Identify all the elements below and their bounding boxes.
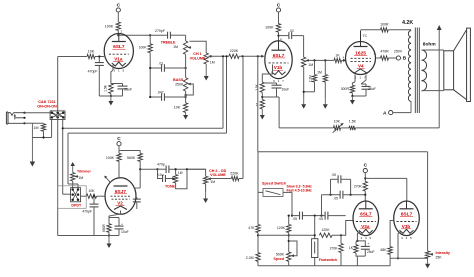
svg-text:1K: 1K xyxy=(349,246,354,250)
svg-text:560K: 560K xyxy=(127,156,136,160)
wire .02 down to pot xyxy=(303,36,305,58)
wire pot to 1K xyxy=(309,59,334,61)
ground 1M grid xyxy=(323,98,328,109)
wire V2 plate to 470p xyxy=(140,168,158,170)
resistor 68K xyxy=(388,247,392,255)
svg-text:.05: .05 xyxy=(292,217,297,221)
switch DPDT xyxy=(71,188,81,202)
svg-text:V2: V2 xyxy=(117,201,123,206)
wire tone bottom loop xyxy=(176,168,188,189)
wire tremolo top horizontal xyxy=(258,151,428,153)
label CH 1 xyxy=(193,52,201,56)
wire vertical x=226.5 xyxy=(226,56,228,133)
terminal C tremolo xyxy=(363,162,367,172)
svg-text:.05: .05 xyxy=(318,217,323,221)
svg-text:1M: 1M xyxy=(210,180,215,184)
wire speed wiper loop xyxy=(289,241,297,256)
wire 68K bottom xyxy=(389,254,391,265)
label 1K xyxy=(335,54,340,58)
pot 1M driver xyxy=(301,57,309,67)
label 680R xyxy=(102,223,106,231)
wire A to primary bottom xyxy=(393,112,411,114)
svg-text:10K: 10K xyxy=(88,49,95,53)
label 1.5K feedback xyxy=(349,120,357,124)
ground bus tremolo xyxy=(258,265,390,267)
trimmer 15K feedback xyxy=(333,123,344,133)
label 4.2K xyxy=(402,20,413,26)
svg-text:Intensity: Intensity xyxy=(436,251,450,255)
V2 grid2 arrow xyxy=(104,176,110,182)
wire cathode node V1b xyxy=(261,92,263,99)
wire 2.2M to bus xyxy=(257,261,259,265)
label 1.5K V1b xyxy=(255,83,259,90)
svg-text:C: C xyxy=(117,3,121,9)
label 25K xyxy=(436,256,443,260)
svg-text:1M: 1M xyxy=(173,45,178,49)
capacitor 470pF V1a grid xyxy=(95,55,104,96)
capacitor .02 coupling xyxy=(279,32,304,39)
label DPDT xyxy=(71,204,82,208)
capacitor 270pF xyxy=(150,32,185,39)
wire volume wiper to 220K xyxy=(212,55,229,57)
tube V3b 6SL7 xyxy=(394,201,420,240)
label 100K V1b xyxy=(265,26,274,30)
tube V1a 6SL7 xyxy=(104,30,133,73)
svg-text:10uF: 10uF xyxy=(282,88,290,92)
label 270pF xyxy=(155,29,165,33)
svg-text:C: C xyxy=(277,3,281,9)
svg-text:Trimmer: Trimmer xyxy=(77,169,91,173)
svg-text:220K: 220K xyxy=(230,172,239,176)
wire secondary bottom to speaker xyxy=(422,90,444,92)
resistor 100K slope xyxy=(148,35,152,53)
wire intensity riser xyxy=(427,152,429,251)
transformer T1 primary xyxy=(408,30,411,113)
wire 47K bottom xyxy=(257,233,259,253)
svg-text:300R: 300R xyxy=(341,87,350,91)
ground V2 cathode xyxy=(107,236,112,249)
wire 560K to plate node xyxy=(139,161,141,188)
svg-text:.02: .02 xyxy=(289,29,294,33)
resistor 120K osc xyxy=(287,225,291,233)
wire pot bottom xyxy=(303,67,315,98)
tube V1b 6SL7 xyxy=(265,37,292,83)
svg-text:8ohm: 8ohm xyxy=(423,42,436,48)
label 470pF V2 xyxy=(82,210,92,214)
wire V2 grid entry xyxy=(97,195,106,197)
resistor 100K plate V1a xyxy=(116,22,120,31)
svg-text:100K: 100K xyxy=(265,26,274,30)
ground pot/2.2M xyxy=(301,98,306,109)
label BASS xyxy=(173,78,184,82)
wire 1M bottom to ground bus xyxy=(32,136,51,138)
pot BASS 250K xyxy=(183,78,191,92)
svg-text:1M: 1M xyxy=(178,171,183,175)
svg-text:C: C xyxy=(117,136,121,142)
capacitor 470p ch2 xyxy=(158,165,188,173)
svg-text:680R: 680R xyxy=(102,223,106,231)
wire 500K to bus xyxy=(288,261,290,265)
tube V2 6SJ7 xyxy=(105,178,140,214)
label 10K tone xyxy=(174,106,181,110)
wire 100R to primary xyxy=(388,29,411,31)
wire treble top xyxy=(185,35,187,41)
switch Speed SPST xyxy=(263,189,283,197)
label 470pF xyxy=(88,70,98,74)
resistor 100K plate V1b xyxy=(276,24,280,33)
label Slow xyxy=(287,184,313,188)
svg-text:100R: 100R xyxy=(380,22,389,26)
terminal C supply V1b xyxy=(276,3,280,13)
svg-text:25uF: 25uF xyxy=(124,87,132,91)
svg-text:V3b: V3b xyxy=(402,224,411,229)
wire V2 cathode xyxy=(109,211,121,224)
label 10uF V1b xyxy=(282,88,290,92)
svg-text:470pF: 470pF xyxy=(82,210,92,214)
svg-text:ON-ON-ON: ON-ON-ON xyxy=(37,105,57,109)
svg-text:100K: 100K xyxy=(105,25,114,29)
svg-text:250K: 250K xyxy=(175,82,184,86)
label .01 xyxy=(158,61,163,65)
wire corner2 down to DPDT xyxy=(68,133,78,188)
label 560K xyxy=(127,156,136,160)
svg-text:DPDT: DPDT xyxy=(71,204,82,208)
label 1M input xyxy=(34,126,39,130)
label 10u xyxy=(158,173,164,177)
label .047 xyxy=(157,90,164,94)
wire speed sw left down xyxy=(257,192,259,224)
svg-text:C: C xyxy=(364,162,368,168)
wire V3b cathode xyxy=(397,232,401,260)
resistor 2.2M xyxy=(312,60,316,91)
ground intensity xyxy=(425,258,430,268)
resistor 270K plate V3a xyxy=(363,181,367,191)
resistor 1.5K cathode V1b xyxy=(260,82,264,92)
svg-text:120K: 120K xyxy=(322,228,331,232)
terminal B xyxy=(396,56,407,62)
label 1.5K xyxy=(103,84,107,92)
svg-text:100K: 100K xyxy=(106,156,115,160)
wire 100K to V2 top xyxy=(118,161,120,178)
label 100K V2 xyxy=(106,156,115,160)
wire V1b cathode xyxy=(262,65,272,83)
wire trimmer to DPDT xyxy=(72,181,74,188)
wire osc to V3a grid xyxy=(332,221,354,237)
wire S1 left-bottom leg xyxy=(51,120,53,138)
label 1M grid xyxy=(317,71,322,75)
wire slope bottom vertical xyxy=(149,53,151,97)
resistor 1M grid 1625 xyxy=(323,60,327,98)
svg-text:V1b: V1b xyxy=(274,65,283,70)
resistor 220K ch2 xyxy=(231,176,239,180)
pot TREBLE 1M xyxy=(183,41,191,55)
label 1M trimmer xyxy=(79,176,84,180)
resistor 120K h xyxy=(319,233,332,237)
svg-text:A: A xyxy=(383,110,387,116)
svg-text:VOLUME: VOLUME xyxy=(210,173,226,177)
label 270K plate xyxy=(354,184,363,188)
capacitor 25uF cathode V1a xyxy=(111,84,128,97)
label 47 xyxy=(256,103,260,107)
svg-text:B: B xyxy=(403,56,407,62)
wire 470R to B xyxy=(389,57,397,59)
label 2.2M xyxy=(309,75,313,82)
label 1M driver xyxy=(308,63,313,67)
wire 1K to 1625 grid xyxy=(342,59,347,62)
wire long horizontal y=128.3 to CH1 volume xyxy=(62,127,223,129)
capacitor 10uF V2 xyxy=(109,218,124,236)
wire treble-bass vertical xyxy=(185,54,187,77)
label 120K h xyxy=(322,228,331,232)
label Footswitch xyxy=(319,258,337,262)
label 25uF 1625 xyxy=(368,87,376,91)
svg-text:+: + xyxy=(121,222,123,226)
wire riser x=243 to V1b grid xyxy=(242,56,244,178)
speaker coil xyxy=(444,51,454,90)
svg-text:+: + xyxy=(368,242,370,246)
svg-text:220K: 220K xyxy=(230,49,239,53)
label 120K osc xyxy=(277,226,286,230)
svg-text:4.2K: 4.2K xyxy=(402,20,413,26)
pot CH1 VOLUME 1M xyxy=(204,53,212,64)
wire speaker ground arrow to feedback xyxy=(437,25,442,128)
wire tremolo feed drop xyxy=(257,56,259,152)
label 470R xyxy=(380,49,389,53)
svg-text:1M: 1M xyxy=(34,126,39,130)
label TONE xyxy=(165,185,176,189)
terminal C supply V1a xyxy=(116,3,120,13)
label 1M treble xyxy=(173,45,178,49)
svg-text:.047: .047 xyxy=(157,90,164,94)
capacitor .05 D xyxy=(331,175,351,183)
wire 1625 screen xyxy=(376,57,380,59)
label 25uF xyxy=(124,87,132,91)
svg-text:100K: 100K xyxy=(139,45,148,49)
ground CH1 volume xyxy=(204,64,209,81)
label 220K ch1 xyxy=(230,49,239,53)
svg-text:V3a: V3a xyxy=(361,224,370,229)
wire plate node to tone stack xyxy=(118,34,150,36)
wire 1625 plate up xyxy=(361,30,381,31)
capacitor 25uF 1625 xyxy=(352,84,370,96)
wire feedback mid xyxy=(341,127,349,129)
svg-text:1M: 1M xyxy=(317,71,322,75)
svg-text:470pF: 470pF xyxy=(88,70,98,74)
svg-text:470p: 470p xyxy=(157,162,165,166)
svg-text:250V: 250V xyxy=(394,49,403,53)
label TREBLE xyxy=(161,40,176,44)
switch DPDT box xyxy=(58,186,87,209)
resistor 1.5K feedback xyxy=(349,126,355,130)
resistor 470R screen xyxy=(381,56,389,60)
svg-text:Speed: Speed xyxy=(273,257,284,261)
svg-text:3: 3 xyxy=(374,52,376,56)
ground input (long arrow) xyxy=(30,123,36,166)
svg-text:.05: .05 xyxy=(333,196,338,200)
wire C to 100K xyxy=(117,12,119,22)
svg-text:270pF: 270pF xyxy=(155,29,165,33)
svg-text:25K: 25K xyxy=(436,256,443,260)
resistor 680R cathode V2 xyxy=(107,224,111,233)
wire S1 right leg / channel wire A corner xyxy=(62,120,64,195)
svg-text:CH 1: CH 1 xyxy=(193,52,201,56)
wire 120K bottom xyxy=(288,233,290,252)
wire speed switch right xyxy=(283,192,293,216)
transformer T1 secondary xyxy=(422,50,427,91)
wire V3a cathode bottom xyxy=(356,253,365,266)
resistor 1K V3a xyxy=(354,241,358,253)
label 250K xyxy=(175,82,184,86)
wire feedback left xyxy=(279,127,333,129)
svg-text:68K: 68K xyxy=(381,248,388,252)
wire bass wiper loop xyxy=(185,84,194,96)
label .05 C xyxy=(333,196,338,200)
capacitor 25uF V3a xyxy=(357,241,369,256)
resistor 270K trem xyxy=(339,235,343,265)
resistor 300R cathode 1625 xyxy=(350,82,355,93)
ground 10K tone xyxy=(183,112,188,119)
label 100K slope xyxy=(139,45,148,49)
wire C to 100K V1b xyxy=(278,12,280,24)
label 10uF V2 xyxy=(121,230,129,234)
svg-text:47K: 47K xyxy=(248,226,255,230)
resistor 47K xyxy=(256,225,260,233)
svg-text:10K: 10K xyxy=(88,189,95,193)
wire 10K to DPDT xyxy=(81,195,87,197)
label 1M ch2 xyxy=(210,180,215,184)
label 25uF V3a xyxy=(367,250,375,254)
wire feedback riser xyxy=(278,97,280,128)
wire to CH2 volume xyxy=(187,169,206,176)
svg-text:270K: 270K xyxy=(354,184,363,188)
svg-text:C&K 7211: C&K 7211 xyxy=(38,100,56,104)
svg-text:TONE: TONE xyxy=(165,185,176,189)
pot TONE 1M xyxy=(172,168,178,183)
label Trimmer xyxy=(77,169,91,173)
ground CH2 volume xyxy=(203,184,208,203)
arrow up trimmer xyxy=(70,162,75,173)
wire jack tip to switch S1 xyxy=(25,112,51,114)
svg-text:120K: 120K xyxy=(277,226,286,230)
wire 270K to V3a plate xyxy=(364,191,366,201)
label 47K xyxy=(248,226,255,230)
label 1M tone xyxy=(178,171,183,175)
label 100R xyxy=(380,22,389,26)
label .05 D xyxy=(331,173,336,177)
svg-text:.05: .05 xyxy=(331,173,336,177)
speaker cone xyxy=(454,28,471,101)
capacitor .05 C xyxy=(322,191,366,199)
wire to V1b plate node xyxy=(277,32,279,41)
label 220K ch2 xyxy=(230,172,239,176)
svg-text:TC: TC xyxy=(363,34,368,38)
resistor 100K V2 plate xyxy=(117,153,121,161)
resistor 10K V2 grid xyxy=(86,194,96,198)
resistor 560K V2 xyxy=(138,153,142,161)
wire V3b grid xyxy=(390,221,394,247)
label 1M ch1 vol xyxy=(210,60,215,64)
resistor 100R xyxy=(381,28,389,32)
wire 220K to V1b grid xyxy=(239,55,264,58)
svg-text:10K: 10K xyxy=(174,106,181,110)
label 1K V3a xyxy=(349,246,354,250)
wire C trem down xyxy=(364,173,366,182)
svg-text:500K: 500K xyxy=(276,252,285,256)
wire footswitch to bus xyxy=(314,258,316,266)
label .02 xyxy=(289,29,294,33)
trimmer 1M xyxy=(71,173,79,182)
capacitor .047 xyxy=(149,93,187,101)
wire vertical x=223 to CH1 volume wiper xyxy=(222,56,224,128)
wire cathode to intensity xyxy=(390,257,428,259)
svg-text:1.5K: 1.5K xyxy=(349,120,357,124)
wire DPDT left contact xyxy=(63,193,71,195)
label VOLUME ch1 xyxy=(190,56,206,60)
label 10K feedback xyxy=(334,120,341,124)
label 10K V2 xyxy=(88,189,95,193)
label ON-ON-ON xyxy=(37,105,57,109)
resistor 1.5K cathode V1a xyxy=(109,84,113,94)
wire 100K to plate node xyxy=(117,31,119,37)
label 68K xyxy=(381,248,388,252)
label pin3 xyxy=(374,52,376,56)
resistor 2.2M trem xyxy=(256,253,260,262)
label 10K xyxy=(88,49,95,53)
capacitor 10u tone xyxy=(158,169,173,182)
svg-text:10uF: 10uF xyxy=(121,230,129,234)
svg-text:10K: 10K xyxy=(334,120,341,124)
tube V3a 6SL7 xyxy=(353,201,379,240)
wire secondary top to speaker xyxy=(422,49,444,51)
label Fast xyxy=(287,188,313,192)
resistor 10K grid V1a xyxy=(87,54,95,58)
resistor 220K ch1 xyxy=(229,54,239,58)
label 470p ch2 xyxy=(157,162,165,166)
wire speed switch left xyxy=(258,152,263,193)
wire cathode node xyxy=(99,94,112,98)
label 8ohm xyxy=(423,42,436,48)
switch S1 C&K 7211 (ON-ON-ON) xyxy=(50,111,65,120)
svg-text:1K: 1K xyxy=(335,54,340,58)
resistor 47 cathode xyxy=(260,100,264,109)
svg-text:V1a: V1a xyxy=(114,57,123,62)
svg-text:1M: 1M xyxy=(210,60,215,64)
wire 10K left to switch drop xyxy=(58,56,87,58)
transformer core xyxy=(415,28,419,114)
wire V2 cathode node xyxy=(58,232,119,236)
resistor 1M input xyxy=(41,123,45,137)
wire treble to volume xyxy=(190,41,207,53)
capacitor 470pF V2 grid xyxy=(90,195,99,235)
ground V1a cathode xyxy=(108,96,113,106)
capacitor 10uF V1b xyxy=(262,83,281,97)
svg-text:TREBLE: TREBLE xyxy=(161,40,176,44)
svg-text:Fast 4.5-10.8Hz: Fast 4.5-10.8Hz xyxy=(287,188,313,192)
label CH 2 - OD xyxy=(209,169,227,173)
ground 1625 cathode xyxy=(350,93,355,105)
terminal C supply V2 xyxy=(117,136,121,146)
label Intensity xyxy=(436,251,450,255)
wire D-left riser xyxy=(330,179,332,194)
wire V3a cathode xyxy=(356,232,360,242)
label .05 B xyxy=(318,217,323,221)
ground V1b cathode xyxy=(260,109,265,120)
pot SPEED 500K xyxy=(287,252,295,262)
svg-text:Speed Switch: Speed Switch xyxy=(262,182,287,186)
label 2.2M trem xyxy=(246,256,254,260)
wire V1a cathode lead xyxy=(111,65,113,84)
wire S1 bottom-middle down to V2 grid wire xyxy=(57,120,59,236)
